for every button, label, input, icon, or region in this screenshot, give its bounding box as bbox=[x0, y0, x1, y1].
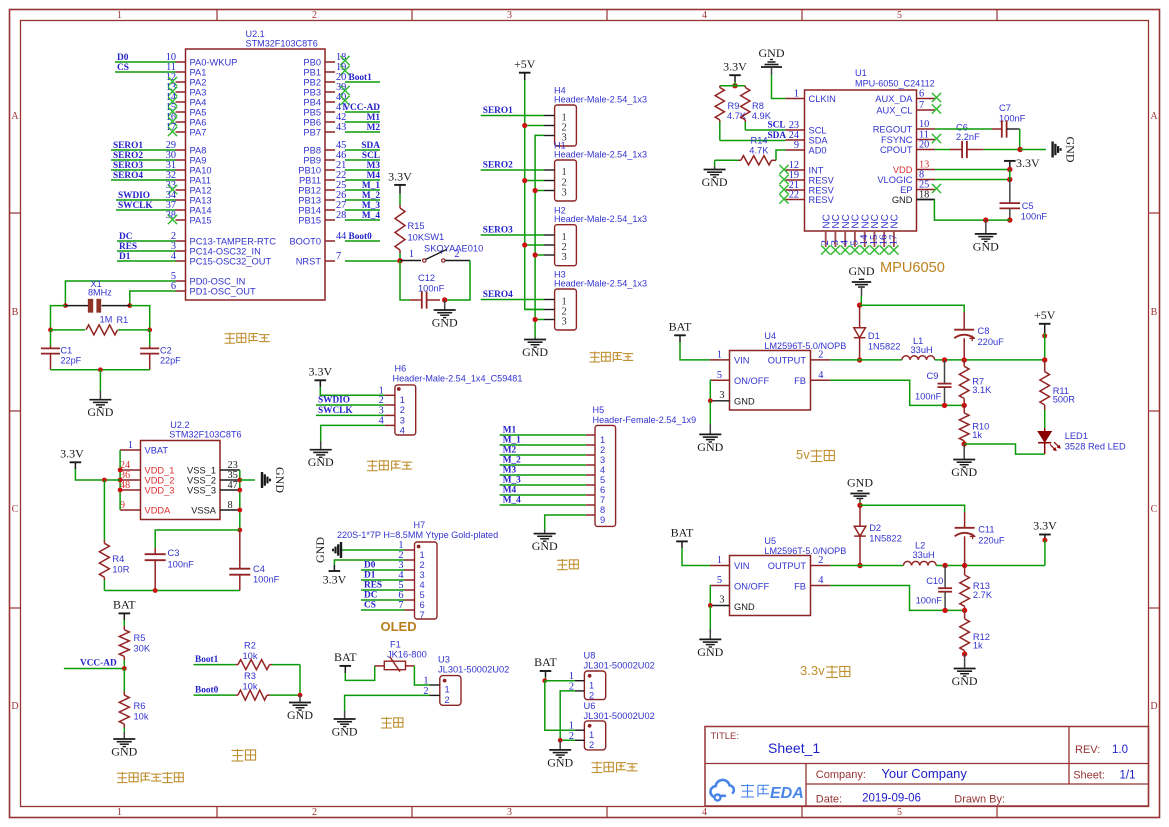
node R11 top bbox=[1042, 357, 1047, 362]
svg-text:STM32F103C8T6: STM32F103C8T6 bbox=[246, 39, 318, 49]
svg-text:M2: M2 bbox=[367, 123, 381, 133]
net label D0 wire to U2.1 bbox=[115, 53, 176, 63]
ground U2.2 sideways bbox=[262, 467, 287, 493]
svg-text:47: 47 bbox=[228, 480, 238, 491]
svg-text:1M: 1M bbox=[100, 315, 113, 325]
svg-text:PA14: PA14 bbox=[190, 206, 212, 216]
svg-text:GND: GND bbox=[759, 46, 785, 60]
node D2 top bbox=[857, 503, 862, 508]
svg-text:LM2596T-5.0/NOPB: LM2596T-5.0/NOPB bbox=[764, 341, 846, 351]
net label CS wire to H7 pin7 bbox=[361, 601, 405, 611]
annotation servo interface bbox=[590, 352, 634, 363]
node R4 top bbox=[102, 478, 107, 483]
capacitor C11 220uF bbox=[955, 512, 1005, 566]
U1 pin 23 SCL bbox=[786, 120, 827, 135]
svg-text:PB9: PB9 bbox=[303, 156, 321, 166]
U1 pin 7 AUX_CL bbox=[876, 100, 941, 115]
ground H6 bbox=[308, 441, 334, 469]
svg-text:REV:: REV: bbox=[1075, 744, 1100, 756]
svg-text:8MHz: 8MHz bbox=[88, 288, 112, 298]
node R7 R10 bbox=[962, 403, 967, 408]
U2.1 pin 41 PB5 bbox=[303, 102, 346, 117]
svg-text:M_4: M_4 bbox=[362, 211, 380, 221]
wire U5 FB net bbox=[830, 586, 964, 611]
svg-text:BOOT0: BOOT0 bbox=[289, 237, 321, 247]
net label M_4 wire to H5 pin8 bbox=[500, 496, 586, 506]
svg-text:10k: 10k bbox=[243, 651, 258, 661]
U2.1 pin 19 PB1 bbox=[303, 62, 349, 77]
svg-text:PB7: PB7 bbox=[303, 128, 321, 138]
svg-text:M1: M1 bbox=[503, 426, 517, 436]
wire H7 pin2 to 3.3V bbox=[334, 560, 404, 565]
svg-text:8: 8 bbox=[600, 505, 605, 515]
svg-text:8: 8 bbox=[228, 500, 233, 511]
node gnd net MPU bbox=[983, 217, 988, 222]
svg-text:1.0: 1.0 bbox=[1112, 744, 1128, 756]
wire C7 to gnd net bbox=[1019, 129, 1021, 150]
annotation MPU6050 bbox=[880, 260, 945, 276]
wire U3 pin2 to gnd bbox=[345, 695, 430, 711]
node gnd rail H3 bbox=[533, 317, 538, 322]
svg-text:22pF: 22pF bbox=[160, 356, 181, 366]
svg-text:22: 22 bbox=[789, 190, 799, 201]
U2.1 pin 7 NRST bbox=[296, 251, 341, 266]
wire +5V rail bbox=[525, 80, 544, 309]
U2.1 pin 25 PB12 bbox=[298, 180, 346, 195]
svg-text:PA3: PA3 bbox=[190, 88, 207, 98]
U2.1 pin 26 PB13 bbox=[298, 190, 346, 205]
node C11 bottom bbox=[962, 563, 967, 568]
svg-text:LED1: LED1 bbox=[1065, 431, 1088, 441]
wire fuse to U3 pin1 bbox=[414, 666, 429, 685]
svg-text:C: C bbox=[12, 504, 19, 515]
svg-text:EDA: EDA bbox=[770, 785, 804, 802]
node C3 bottom bbox=[153, 588, 158, 593]
svg-text:1: 1 bbox=[409, 249, 414, 260]
svg-text:VSS_2: VSS_2 bbox=[187, 476, 216, 486]
net label SERO4 wire to H3 pin1 bbox=[481, 290, 544, 300]
svg-text:D0: D0 bbox=[364, 561, 376, 571]
svg-text:MPU-6050_C24112: MPU-6050_C24112 bbox=[855, 79, 935, 89]
node D1 bottom bbox=[857, 357, 862, 362]
power flag 3.3V for U2.2 bbox=[60, 447, 84, 469]
svg-text:NC: NC bbox=[890, 214, 901, 228]
ground rail top 5V bbox=[849, 264, 875, 296]
svg-text:VSS_3: VSS_3 bbox=[187, 486, 216, 496]
capacitor C3 100nF bbox=[145, 548, 194, 591]
svg-text:PB4: PB4 bbox=[303, 98, 321, 108]
svg-text:GND: GND bbox=[697, 440, 723, 454]
U2.1 pin 12 PA2 bbox=[166, 72, 207, 87]
svg-text:U5: U5 bbox=[764, 536, 776, 546]
svg-text:FB: FB bbox=[794, 376, 806, 386]
svg-text:VBAT: VBAT bbox=[145, 446, 169, 456]
svg-text:5: 5 bbox=[717, 370, 722, 381]
U4 pin 4 FB stub bbox=[811, 370, 831, 381]
U2.1 pin 37 PA14 bbox=[166, 200, 212, 215]
svg-text:VIN: VIN bbox=[734, 356, 750, 366]
net label D1 wire to U2.1 bbox=[117, 252, 176, 262]
svg-text:D: D bbox=[11, 701, 18, 712]
svg-text:VCC-AD: VCC-AD bbox=[80, 659, 117, 669]
svg-text:GND: GND bbox=[313, 537, 327, 563]
svg-text:PD1-OSC_OUT: PD1-OSC_OUT bbox=[190, 287, 256, 297]
wire L2 to 3.3V flag bbox=[936, 565, 1045, 567]
svg-text:9: 9 bbox=[794, 140, 799, 151]
svg-text:C12: C12 bbox=[418, 273, 435, 283]
U2.1 pin 27 PB14 bbox=[298, 200, 346, 215]
ground R14 bbox=[702, 166, 728, 189]
svg-text:JL301-50002U02: JL301-50002U02 bbox=[584, 661, 655, 671]
svg-text:PB14: PB14 bbox=[298, 206, 321, 216]
svg-text:4: 4 bbox=[818, 575, 823, 586]
svg-text:3: 3 bbox=[562, 187, 567, 198]
svg-text:7: 7 bbox=[336, 251, 341, 262]
svg-text:28: 28 bbox=[336, 210, 346, 221]
svg-text:EP: EP bbox=[900, 185, 912, 195]
svg-text:10R: 10R bbox=[112, 565, 129, 575]
svg-text:B: B bbox=[12, 307, 19, 318]
svg-text:PB1: PB1 bbox=[303, 68, 321, 78]
svg-text:2: 2 bbox=[400, 405, 405, 415]
node C9 bottom bbox=[942, 403, 947, 408]
svg-text:3.3V: 3.3V bbox=[308, 365, 332, 379]
net label SERO1 wire to U2.1 bbox=[111, 141, 176, 151]
svg-text:C1: C1 bbox=[61, 346, 73, 356]
svg-text:10K: 10K bbox=[408, 233, 425, 243]
svg-text:3: 3 bbox=[562, 316, 567, 327]
svg-text:5: 5 bbox=[717, 575, 722, 586]
svg-text:BAT: BAT bbox=[534, 655, 557, 669]
svg-text:VDD: VDD bbox=[893, 165, 913, 175]
svg-text:M_2: M_2 bbox=[362, 191, 380, 201]
U2.2 pin 47 VSS_3 bbox=[187, 480, 240, 495]
wire VSS bus bbox=[239, 470, 241, 530]
svg-text:SDA: SDA bbox=[809, 136, 829, 146]
svg-text:ON/OFF: ON/OFF bbox=[734, 581, 769, 591]
svg-text:PA8: PA8 bbox=[190, 146, 207, 156]
svg-text:C10: C10 bbox=[926, 576, 943, 586]
U1 NC pin 3 bbox=[829, 214, 842, 254]
svg-text:3: 3 bbox=[507, 807, 512, 818]
U2.1 pin 10 PA0-WKUP bbox=[166, 52, 238, 67]
U2.1 pin 13 PA3 bbox=[166, 82, 207, 97]
svg-text:3: 3 bbox=[719, 595, 724, 606]
svg-text:PB10: PB10 bbox=[298, 166, 321, 176]
svg-text:100nF: 100nF bbox=[1021, 212, 1048, 222]
U4 pin 5 ON/OFF stub bbox=[710, 370, 730, 381]
wire H2 pin3 to gnd rail bbox=[535, 254, 544, 256]
net label M4 wire to H5 pin7 bbox=[500, 486, 586, 496]
U2.1 pin 32 PA11 bbox=[166, 170, 211, 185]
svg-text:3.3v: 3.3v bbox=[800, 663, 825, 678]
svg-text:10k: 10k bbox=[243, 682, 258, 692]
svg-text:BAT: BAT bbox=[669, 320, 692, 334]
header H4 Header-Male-2.54_1x3 bbox=[544, 86, 647, 146]
node BAT motor bbox=[542, 678, 547, 683]
svg-text:R4: R4 bbox=[112, 554, 124, 564]
node R1 right bbox=[147, 328, 152, 333]
svg-text:VSSA: VSSA bbox=[191, 506, 217, 516]
wire H1 pin3 to gnd rail bbox=[535, 190, 544, 192]
svg-text:R14: R14 bbox=[751, 135, 768, 145]
node +5V stub bbox=[1042, 333, 1047, 338]
net label M3 stub bbox=[345, 161, 380, 171]
U2.1 pin 40 PB4 bbox=[303, 92, 349, 107]
U2.2 pin 35 VSS_2 bbox=[187, 470, 240, 485]
svg-text:10: 10 bbox=[919, 119, 929, 130]
svg-text:6: 6 bbox=[600, 485, 605, 495]
svg-text:GND: GND bbox=[702, 175, 728, 189]
svg-text:PD0-OSC_IN: PD0-OSC_IN bbox=[190, 277, 246, 287]
node C8 bottom bbox=[962, 357, 967, 362]
annotation 3.3v power bbox=[800, 663, 850, 678]
power flag BAT motor power bbox=[534, 655, 557, 677]
svg-text:PB12: PB12 bbox=[298, 186, 321, 196]
svg-text:3.3V: 3.3V bbox=[323, 573, 347, 587]
U4 pin 3 GND stub bbox=[710, 390, 729, 401]
U2.1 pin 31 PA10 bbox=[166, 160, 212, 175]
svg-text:220uF: 220uF bbox=[978, 337, 1005, 347]
U2.2 pin 24 VDD_1 bbox=[120, 460, 175, 475]
net label VCC-AD stub bbox=[343, 103, 380, 113]
logo LCEDA bbox=[710, 780, 803, 802]
inductor L2 33uH bbox=[903, 541, 936, 566]
svg-text:Boot0: Boot0 bbox=[195, 686, 219, 696]
svg-text:43: 43 bbox=[336, 122, 346, 133]
svg-text:2: 2 bbox=[600, 445, 605, 455]
U1 pin 13 VDD bbox=[893, 160, 935, 175]
ground CLKIN flag bbox=[759, 46, 785, 75]
svg-text:2.7K: 2.7K bbox=[973, 590, 993, 600]
svg-text:D0: D0 bbox=[117, 53, 129, 63]
svg-text:1: 1 bbox=[794, 89, 799, 100]
regulator U5 LM2596T-5.0/NOPB bbox=[730, 536, 847, 616]
wire OUTPUT row bbox=[830, 359, 902, 361]
svg-text:100nF: 100nF bbox=[418, 284, 445, 294]
svg-text:SWDIO: SWDIO bbox=[118, 191, 150, 201]
node +5V rail H2 bbox=[522, 242, 527, 247]
ground H5 bbox=[532, 530, 558, 554]
U1 pin 9 AD0 bbox=[786, 140, 827, 155]
svg-text:1: 1 bbox=[600, 435, 605, 445]
header H2 Header-Male-2.54_1x3 bbox=[544, 205, 647, 265]
net label SERO2 wire to H1 pin1 bbox=[481, 161, 544, 171]
svg-text:PA6: PA6 bbox=[190, 118, 207, 128]
svg-text:220S-1*7P H=8.5MM Ytype Gold-p: 220S-1*7P H=8.5MM Ytype Gold-plated bbox=[337, 530, 498, 540]
U2.1 pin 18 PB0 bbox=[303, 52, 349, 67]
wire R2 to R3 bbox=[299, 665, 301, 696]
svg-text:R1: R1 bbox=[117, 315, 129, 325]
net label SCL wire to U1 bbox=[745, 120, 785, 130]
wire C3 top bbox=[155, 530, 240, 548]
crystal X1 8MHz bbox=[65, 279, 129, 314]
power flag 3.3V MPU bbox=[723, 60, 747, 82]
svg-text:STM32F103C8T6: STM32F103C8T6 bbox=[169, 429, 241, 439]
mcu U2.2 STM32F103C8T6 power pins bbox=[141, 420, 242, 520]
svg-text:7: 7 bbox=[600, 495, 605, 505]
annotation fuse bbox=[381, 717, 403, 728]
svg-text:AUX_CL: AUX_CL bbox=[876, 106, 912, 116]
svg-text:PC13-TAMPER-RTC: PC13-TAMPER-RTC bbox=[190, 237, 277, 247]
net label SWCLK wire to U2.1 bbox=[116, 201, 176, 211]
wire BAT to U5 VIN bbox=[682, 548, 710, 566]
svg-text:GND: GND bbox=[287, 708, 313, 722]
U1 NC pin 5 bbox=[848, 214, 861, 254]
svg-text:PB6: PB6 bbox=[303, 118, 321, 128]
svg-text:GND: GND bbox=[87, 405, 113, 419]
svg-text:1/1: 1/1 bbox=[1120, 770, 1136, 782]
svg-text:2: 2 bbox=[818, 350, 823, 361]
wire VBAT-VDD bus bbox=[119, 450, 121, 510]
svg-text:5: 5 bbox=[600, 475, 605, 485]
wire R14 to AD0 bbox=[776, 150, 786, 160]
resistor R15 10K bbox=[395, 194, 425, 261]
svg-text:D1: D1 bbox=[119, 252, 131, 262]
net label SERO3 wire to U2.1 bbox=[111, 161, 176, 171]
net label M_4 stub bbox=[345, 211, 380, 221]
power flag BAT monitor bbox=[113, 598, 136, 621]
net label M_2 wire to H5 pin4 bbox=[500, 456, 586, 466]
svg-text:5v: 5v bbox=[796, 447, 810, 462]
svg-text:1N5822: 1N5822 bbox=[869, 534, 902, 544]
node VDD bbox=[1007, 167, 1012, 172]
svg-text:F1: F1 bbox=[390, 640, 401, 650]
svg-text:GND: GND bbox=[697, 645, 723, 659]
wire H7 pin1 to gnd arrow bbox=[341, 549, 405, 551]
wire VSS to gnd arrow bbox=[240, 479, 255, 481]
svg-text:PA0-WKUP: PA0-WKUP bbox=[190, 58, 238, 68]
svg-text:+5V: +5V bbox=[514, 57, 536, 71]
svg-text:M_4: M_4 bbox=[503, 496, 521, 506]
wire R10 to LED1 bbox=[964, 444, 1044, 454]
svg-text:U1: U1 bbox=[855, 68, 867, 78]
node D1 top bbox=[857, 303, 862, 308]
svg-text:ON/OFF: ON/OFF bbox=[734, 376, 769, 386]
net label SDA wire to U1 bbox=[720, 131, 787, 141]
svg-text:GND: GND bbox=[849, 264, 875, 278]
U1 NC pin 17 bbox=[887, 214, 900, 254]
svg-text:GND: GND bbox=[273, 467, 287, 493]
svg-text:Company:: Company: bbox=[816, 769, 866, 781]
U1 pin 10 REGOUT bbox=[873, 119, 935, 134]
power flag 3.3V out bbox=[1033, 519, 1057, 541]
svg-text:GND: GND bbox=[892, 195, 913, 205]
svg-text:C9: C9 bbox=[927, 371, 939, 381]
svg-text:PA7: PA7 bbox=[190, 128, 207, 138]
svg-text:22pF: 22pF bbox=[61, 356, 82, 366]
net label M1 wire to H5 pin1 bbox=[500, 426, 586, 436]
U2.1 pin 45 PB8 bbox=[303, 140, 346, 155]
U2.1 pin 4 PC15-OSC32_OUT bbox=[171, 251, 272, 266]
node C12 gnd bbox=[442, 297, 447, 302]
svg-text:33uH: 33uH bbox=[911, 345, 933, 355]
U2.1 pin 21 PB10 bbox=[298, 160, 346, 175]
svg-text:RESV: RESV bbox=[809, 176, 835, 186]
svg-text:REGOUT: REGOUT bbox=[873, 125, 913, 135]
svg-text:3.3V: 3.3V bbox=[60, 447, 84, 461]
U5 pin 4 FB stub bbox=[811, 575, 831, 586]
net label Boot0 wire bbox=[194, 686, 236, 696]
svg-text:Header-Male-2.54_1x3: Header-Male-2.54_1x3 bbox=[554, 150, 647, 160]
svg-text:2: 2 bbox=[589, 740, 594, 750]
node VSS_3 bbox=[237, 488, 242, 493]
svg-text:SDA: SDA bbox=[768, 131, 787, 141]
svg-text:GND: GND bbox=[547, 755, 573, 769]
wire H4 pin2 to +5V rail bbox=[525, 125, 544, 127]
diode D1 1N5822 bbox=[854, 305, 901, 360]
svg-text:C11: C11 bbox=[978, 525, 994, 535]
wire BAT to fuse bbox=[345, 666, 374, 681]
net label Boot0 stub bbox=[345, 232, 380, 242]
capacitor C9 100nF bbox=[915, 360, 952, 405]
svg-text:9: 9 bbox=[600, 515, 605, 525]
svg-text:A: A bbox=[1150, 111, 1158, 122]
U2.1 pin 34 PA13 bbox=[166, 190, 212, 205]
resistor R2 10k bbox=[236, 641, 300, 670]
svg-text:GND: GND bbox=[951, 465, 977, 479]
svg-text:LM2596T-5.0/NOPB: LM2596T-5.0/NOPB bbox=[764, 546, 846, 556]
connector U8 JL301-50002U02 bbox=[569, 651, 655, 701]
svg-text:H6: H6 bbox=[395, 364, 407, 374]
wire H1 pin2 to +5V rail bbox=[525, 180, 544, 182]
svg-text:VDD_3: VDD_3 bbox=[145, 486, 175, 496]
net label SWDIO wire to H6 bbox=[316, 396, 385, 406]
svg-text:AD0: AD0 bbox=[809, 146, 827, 156]
svg-text:2: 2 bbox=[420, 560, 425, 570]
capacitor C6 2.2nF bbox=[935, 123, 1020, 159]
U1 pin 20 CPOUT bbox=[880, 140, 935, 155]
svg-text:1N5822: 1N5822 bbox=[868, 342, 901, 352]
ground battery monitor bbox=[111, 732, 137, 759]
power flag 3.3V at VDD bbox=[1004, 156, 1040, 170]
svg-text:6: 6 bbox=[420, 600, 425, 610]
U2.1 pin 28 PB15 bbox=[298, 210, 346, 225]
svg-text:R5: R5 bbox=[134, 633, 146, 643]
svg-text:GND: GND bbox=[308, 455, 334, 469]
svg-text:Boot1: Boot1 bbox=[349, 73, 373, 83]
svg-text:3: 3 bbox=[600, 455, 605, 465]
U2.1 pin 3 PC14-OSC32_IN bbox=[171, 241, 261, 256]
svg-text:PA15: PA15 bbox=[190, 216, 212, 226]
annotation motor power bbox=[592, 762, 638, 773]
svg-text:3.3V: 3.3V bbox=[1016, 156, 1040, 170]
svg-text:R2: R2 bbox=[244, 641, 256, 651]
net label VCC-AD wire bbox=[64, 659, 124, 669]
wire 5V top rail bbox=[860, 305, 965, 312]
resistor R1 1M bbox=[51, 315, 150, 335]
svg-text:RES: RES bbox=[364, 581, 382, 591]
svg-text:SWCLK: SWCLK bbox=[318, 406, 353, 416]
svg-text:PA2: PA2 bbox=[190, 78, 207, 88]
svg-text:Your Company: Your Company bbox=[881, 766, 967, 781]
svg-text:U3: U3 bbox=[438, 655, 450, 665]
ground R12 bbox=[952, 654, 978, 688]
svg-text:H7: H7 bbox=[414, 520, 426, 530]
U1 pin 12 INT bbox=[779, 160, 823, 175]
svg-text:100nF: 100nF bbox=[253, 575, 280, 585]
diode D2 1N5822 bbox=[854, 505, 902, 565]
ground MPU sideways bbox=[1053, 137, 1078, 163]
U5 pin 5 ON/OFF stub bbox=[710, 575, 730, 586]
svg-text:OUTPUT: OUTPUT bbox=[768, 356, 807, 366]
svg-text:7: 7 bbox=[420, 610, 425, 620]
svg-text:JL301-50002U02: JL301-50002U02 bbox=[438, 665, 509, 675]
title block frame bbox=[705, 727, 1149, 807]
net label SERO1 wire to H4 pin1 bbox=[481, 106, 544, 116]
svg-text:M_3: M_3 bbox=[503, 476, 521, 486]
led LED1 3528 Red LED bbox=[1038, 428, 1126, 454]
